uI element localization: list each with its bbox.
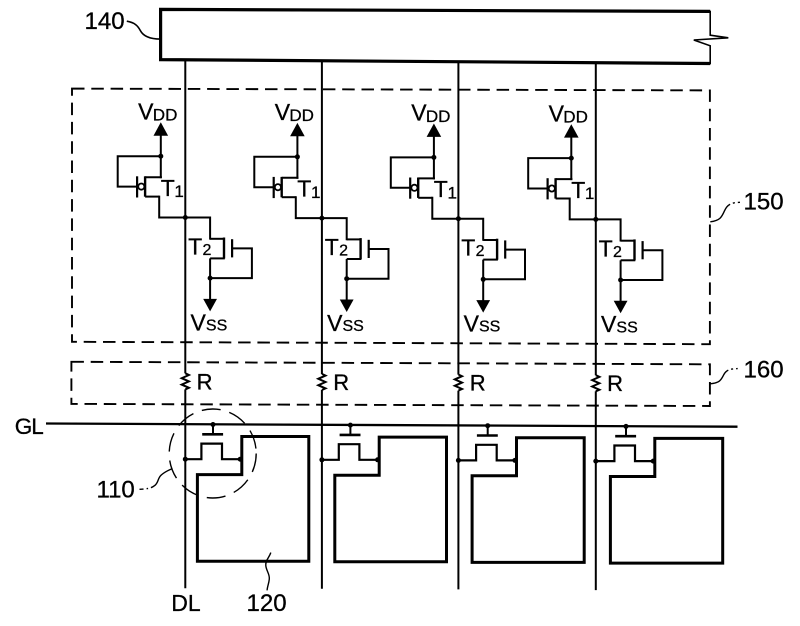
node DL1 junction [183, 215, 188, 220]
pixel TFT 110 channel (column 1) [185, 444, 240, 460]
wire T1 drain to DL4 [570, 198, 597, 220]
pixel TFT 110 channel (column 2) [322, 444, 378, 460]
svg-text:SS: SS [343, 318, 364, 335]
pixel electrode 120 (column 1) [197, 437, 308, 562]
dashed circle highlighting pixel TFT 110 [169, 409, 256, 498]
svg-text:R: R [333, 370, 349, 395]
svg-text:V: V [549, 100, 565, 126]
leader line for label 110 (dash-dot) [140, 469, 173, 490]
svg-text:T: T [434, 176, 448, 202]
resistor R4 [592, 375, 599, 391]
pixel electrode 120 (column 4) [610, 438, 722, 563]
node DL4 junction [593, 217, 598, 222]
svg-text:V: V [411, 100, 427, 126]
pixel TFT 110 channel (column 4) [596, 446, 653, 462]
wire data line DL2 (lower segment, below resistor R2) [321, 390, 323, 589]
node pixel TFT drain (column 1) [238, 457, 243, 462]
svg-text:140: 140 [85, 8, 125, 35]
transistor T2 (diode-connected, column 4) [621, 239, 643, 280]
wire T2 gate loop (column 1) [209, 248, 252, 278]
wire data line DL4 (lower segment, below resistor R4) [595, 391, 597, 590]
node pixel TFT source on DL4 [593, 459, 598, 464]
svg-text:2: 2 [203, 242, 212, 259]
svg-text:1: 1 [174, 182, 183, 201]
node pixel TFT drain (column 3) [512, 458, 517, 463]
wire DL3 to T2 drain [457, 219, 483, 241]
wire T1 gate loop (column 3) [391, 157, 435, 187]
svg-text:R: R [607, 371, 623, 396]
wire DL2 to T2 drain [321, 218, 347, 240]
svg-text:SS: SS [616, 319, 637, 336]
pixel TFT 110 gate (column 1) [212, 424, 214, 433]
node pixel TFT source on DL1 [183, 457, 188, 462]
svg-text:T: T [599, 235, 613, 261]
svg-text:V: V [191, 309, 207, 335]
transistor T2 (diode-connected, column 1) [210, 238, 232, 279]
VDD arrow (column 2) [290, 123, 305, 136]
VDD arrow (column 1) [154, 122, 169, 135]
node DL2 junction [319, 216, 324, 221]
VSS arrow (column 1) [209, 278, 211, 299]
svg-text:V: V [327, 310, 343, 336]
svg-text:DD: DD [563, 108, 588, 127]
svg-text:V: V [138, 99, 154, 125]
node pixel TFT gate on GL (column 1) [211, 422, 216, 427]
pixel electrode 120 (column 2) [335, 437, 447, 562]
wire data line DL1 (lower segment, below resistor R1) [184, 389, 186, 588]
node VDD / T1 junction (column 1) [158, 154, 163, 159]
wire T2 gate loop (column 3) [482, 250, 525, 280]
svg-text:DL: DL [171, 590, 201, 616]
VDD arrow (column 3) [427, 124, 442, 137]
svg-text:DD: DD [153, 106, 178, 125]
svg-text:DD: DD [289, 106, 314, 125]
svg-text:SS: SS [479, 319, 500, 336]
node pixel TFT gate on GL (column 2) [348, 423, 353, 428]
transistor T2 (diode-connected, column 2) [347, 238, 369, 279]
node T2 source / VSS junction (column 1) [208, 276, 213, 281]
svg-text:2: 2 [613, 244, 622, 261]
wire T1 drain to DL2 [296, 196, 323, 218]
VSS arrow (column 4) [620, 280, 622, 301]
wire T1 gate loop (column 1) [118, 156, 162, 186]
wire DL4 to T2 drain [595, 219, 621, 241]
svg-text:V: V [464, 311, 480, 337]
node VDD / T1 junction (column 3) [431, 155, 436, 160]
svg-text:SS: SS [206, 318, 227, 335]
pixel TFT 110 gate (column 2) [349, 425, 351, 434]
data driver block 140 (box outline) [161, 9, 711, 63]
wire T1 gate loop (column 2) [254, 157, 298, 187]
node pixel TFT drain (column 4) [651, 459, 656, 464]
wire data line DL3 (lower segment, below resistor R3) [457, 391, 459, 590]
node pixel TFT source on DL2 [319, 457, 324, 462]
svg-text:T: T [325, 234, 339, 260]
pixel TFT 110 channel (column 3) [458, 445, 515, 461]
wire DL1 to T2 drain [184, 218, 210, 240]
pixel electrode 120 (column 3) [472, 438, 584, 563]
transistor T1 (diode-connected PMOS, column 4) [548, 178, 573, 199]
svg-text:T: T [461, 235, 475, 261]
svg-text:160: 160 [744, 356, 784, 383]
wire T1 gate loop (column 4) [528, 158, 572, 188]
wire data line DL2 (upper segment, above resistor R2) [321, 61, 323, 374]
VSS arrow (column 3) [482, 279, 484, 300]
wire data line DL1 (upper segment, above resistor R1) [184, 60, 186, 374]
svg-text:R: R [197, 369, 213, 394]
wire data line DL4 (upper segment, above resistor R4) [595, 63, 597, 376]
wire T2 gate loop (column 2) [346, 249, 389, 279]
node pixel TFT drain (column 2) [375, 457, 380, 462]
svg-text:1: 1 [448, 183, 457, 202]
svg-text:150: 150 [744, 189, 784, 216]
node T2 source / VSS junction (column 4) [618, 278, 623, 283]
svg-text:T: T [297, 176, 311, 202]
node pixel TFT gate on GL (column 3) [485, 423, 490, 428]
wire gate line GL [46, 424, 738, 427]
data driver block 140 right edge with break symbol [694, 11, 729, 64]
svg-text:1: 1 [585, 184, 594, 203]
svg-text:V: V [275, 99, 291, 125]
resistor R3 [455, 375, 462, 391]
pixel TFT 110 gate (column 3) [487, 426, 489, 435]
transistor T1 (diode-connected PMOS, column 2) [274, 177, 299, 198]
svg-text:T: T [188, 234, 202, 260]
resistor R1 [182, 373, 189, 389]
resistor R2 [318, 374, 325, 390]
transistor T1 (diode-connected PMOS, column 3) [410, 178, 435, 199]
VSS arrow (column 2) [346, 279, 348, 300]
svg-text:V: V [601, 311, 617, 337]
transistor T1 (diode-connected PMOS, column 1) [137, 176, 162, 197]
wire T2 gate loop (column 4) [620, 250, 663, 280]
svg-text:2: 2 [476, 243, 485, 260]
svg-text:120: 120 [247, 590, 287, 617]
dashed block 150 (driver circuit region) [72, 89, 710, 345]
node VDD / T1 junction (column 4) [569, 156, 574, 161]
svg-text:DD: DD [426, 107, 451, 126]
svg-text:110: 110 [97, 477, 135, 504]
node pixel TFT source on DL3 [456, 458, 461, 463]
transistor T2 (diode-connected, column 3) [483, 239, 505, 280]
dashed block 160 (resistor region) [71, 362, 710, 406]
svg-text:R: R [470, 371, 486, 396]
svg-text:T: T [161, 175, 175, 201]
svg-text:GL: GL [15, 414, 43, 439]
node VDD / T1 junction (column 2) [295, 154, 300, 159]
leader line for label 120 [266, 553, 271, 591]
wire T1 drain to DL3 [432, 197, 459, 219]
node T2 source / VSS junction (column 2) [344, 276, 349, 281]
pixel TFT 110 gate (column 4) [625, 426, 627, 435]
svg-text:2: 2 [339, 243, 348, 260]
leader line for label 150 [710, 202, 740, 222]
node pixel TFT gate on GL (column 4) [624, 424, 629, 429]
wire T1 drain to DL1 [159, 196, 186, 218]
leader line for label 140 [127, 21, 161, 39]
VDD arrow (column 4) [564, 124, 579, 137]
leader line for label 160 [710, 369, 738, 384]
svg-text:1: 1 [311, 183, 320, 202]
node T2 source / VSS junction (column 3) [481, 277, 486, 282]
wire data line DL3 (upper segment, above resistor R3) [457, 62, 459, 375]
node DL3 junction [456, 216, 461, 221]
svg-text:T: T [571, 177, 585, 203]
